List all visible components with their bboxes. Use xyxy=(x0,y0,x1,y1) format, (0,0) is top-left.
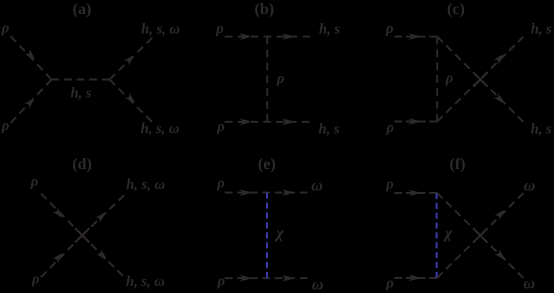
svg-text:ρ: ρ xyxy=(386,120,394,136)
svg-text:ρ: ρ xyxy=(1,118,9,134)
arrow top-left (c) xyxy=(411,35,418,38)
arrow top-left (d) xyxy=(55,210,62,217)
svg-text:ρ: ρ xyxy=(385,177,393,193)
top-left rho line (c) xyxy=(394,36,437,38)
top line rho to h,s (b) xyxy=(225,36,311,38)
arrow left on bottom line (b) xyxy=(242,120,249,123)
svg-text:h, s, ω: h, s, ω xyxy=(126,177,165,193)
svg-text:ρ: ρ xyxy=(31,271,39,287)
svg-text:ρ: ρ xyxy=(30,174,38,190)
arrow on down-right diagonal (f) xyxy=(497,252,504,259)
svg-text:h, s: h, s xyxy=(531,21,552,37)
arrow bottom-left (c) xyxy=(411,120,418,123)
svg-text:ρ: ρ xyxy=(216,119,224,135)
arrow right on top line (b) xyxy=(284,35,291,38)
arrow right on bottom line (b) xyxy=(284,120,291,123)
bottom line rho to omega (e) xyxy=(225,277,308,279)
svg-text:(f): (f) xyxy=(450,156,466,173)
svg-text:ρ: ρ xyxy=(385,276,393,292)
solid vertex X (d) xyxy=(75,228,89,242)
svg-text:(c): (c) xyxy=(447,1,465,18)
svg-text:ρ: ρ xyxy=(276,71,284,87)
svg-text:h, s: h, s xyxy=(319,121,340,137)
svg-text:(a): (a) xyxy=(73,1,92,18)
svg-text:(d): (d) xyxy=(72,156,92,173)
svg-text:ω: ω xyxy=(523,275,535,292)
svg-text:ω: ω xyxy=(524,178,536,195)
arrow left on bottom line (e) xyxy=(242,277,249,280)
svg-text:ρ: ρ xyxy=(216,176,224,192)
top line rho to omega (e) xyxy=(225,192,308,194)
svg-text:ρ: ρ xyxy=(1,21,9,37)
crossing diagonal down-right (c) xyxy=(437,37,523,122)
solid crossing X (c) xyxy=(473,73,487,87)
arrow bottom-right (d) xyxy=(99,252,106,259)
svg-text:(e): (e) xyxy=(258,156,276,173)
arrow on bottom-left line (a) xyxy=(27,98,34,105)
incoming rho line bottom-left (d) xyxy=(41,235,82,277)
svg-text:ρ: ρ xyxy=(445,70,453,86)
arrow bottom-left (f) xyxy=(411,276,418,279)
arrow right on bottom line (e) xyxy=(284,277,291,280)
arrow on up-right diagonal (f) xyxy=(497,210,504,217)
arrow left on top line (e) xyxy=(242,191,249,194)
incoming rho line bottom-left (a) xyxy=(11,80,52,124)
svg-text:h, s, ω: h, s, ω xyxy=(126,274,165,290)
svg-text:h, s: h, s xyxy=(319,21,340,37)
svg-text:ρ: ρ xyxy=(216,274,224,290)
bottom line rho to h,s (b) xyxy=(225,121,310,123)
propagator h,s (a) xyxy=(52,79,110,81)
arrow right on top line (e) xyxy=(284,191,291,194)
arrow on top-right line (a) xyxy=(127,56,134,63)
svg-text:h, s: h, s xyxy=(531,121,552,137)
arrow top-left (f) xyxy=(411,191,418,194)
svg-text:ρ: ρ xyxy=(215,21,223,37)
arrow top-right (d) xyxy=(98,213,105,220)
arrow on down-right diagonal (c) xyxy=(497,96,504,103)
svg-text:(b): (b) xyxy=(255,1,275,18)
arrow left on top line (b) xyxy=(242,35,249,38)
vertical rho propagator (c) xyxy=(436,37,438,122)
vertical rho propagator (b) xyxy=(266,37,268,122)
svg-text:ω: ω xyxy=(312,276,324,293)
incoming rho line top-left (d) xyxy=(41,194,82,236)
arrow bottom-left (d) xyxy=(55,253,62,260)
svg-text:ω: ω xyxy=(311,177,323,194)
incoming rho line top-left (a) xyxy=(11,36,52,80)
outgoing line bottom-right (a) xyxy=(110,80,153,123)
vertical chi propagator blue (f) xyxy=(436,193,438,278)
arrow on top-left line (a) xyxy=(28,52,35,59)
outgoing line bottom-right (d) xyxy=(82,235,124,277)
arrow on bottom-right line (a) xyxy=(128,96,135,103)
vertical chi propagator blue (e) xyxy=(266,193,268,279)
arrow on up-right diagonal (c) xyxy=(497,54,504,61)
bottom-left rho line (c) xyxy=(394,121,437,123)
crossing diagonal up-right (c) xyxy=(437,37,523,122)
solid crossing X (f) xyxy=(473,228,487,242)
svg-text:χ: χ xyxy=(274,225,284,242)
svg-text:h, s: h, s xyxy=(71,86,92,102)
svg-text:χ: χ xyxy=(443,225,453,242)
crossing diagonal down-right (f) xyxy=(437,193,524,278)
bottom-left rho line (f) xyxy=(394,277,437,279)
outgoing line top-right (d) xyxy=(82,192,127,235)
svg-text:h, s, ω: h, s, ω xyxy=(141,21,180,37)
svg-text:h, s, ω: h, s, ω xyxy=(141,121,180,137)
svg-text:ρ: ρ xyxy=(385,21,393,37)
outgoing line top-right (a) xyxy=(110,38,153,80)
crossing diagonal up-right (f) xyxy=(437,193,524,278)
top-left rho line (f) xyxy=(394,192,437,194)
